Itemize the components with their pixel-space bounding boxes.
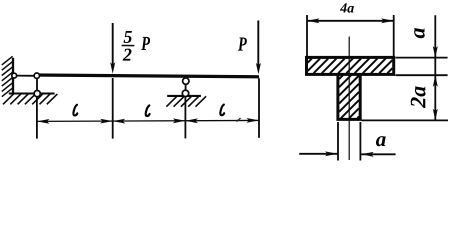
label a (web width) xyxy=(376,136,386,146)
extension line below beam right end xyxy=(258,78,260,138)
force arrow 5/2 P xyxy=(112,23,114,66)
dim arrow seg3 left xyxy=(185,118,198,123)
middle support ground line xyxy=(167,95,201,97)
a dim tail right xyxy=(361,153,395,155)
wall hatching (left fixed wall) xyxy=(2,56,13,96)
4a dim arrow right xyxy=(381,18,394,23)
extension line flange left top xyxy=(306,15,308,56)
extension line flange top right xyxy=(396,57,448,59)
label 4a xyxy=(340,3,354,12)
small scan tick near third l label xyxy=(237,118,241,122)
extension line web left bottom xyxy=(337,122,339,161)
dim arrow seg1 right xyxy=(100,119,113,124)
dim arrow at x=l0 left xyxy=(37,119,50,124)
extension line below mid-span load xyxy=(112,78,114,139)
extension line web bottom right xyxy=(362,119,449,121)
section vertical centerline xyxy=(348,37,350,161)
extension line flange right top xyxy=(393,15,395,56)
T-section web hatching xyxy=(339,75,359,118)
extension line web right bottom xyxy=(359,122,361,161)
fraction bar xyxy=(122,45,135,47)
label 2a (web height, rotated) xyxy=(411,86,426,108)
arrow 2a-dim bottom pointing down xyxy=(433,109,438,121)
label l (span 1) xyxy=(73,105,77,116)
label 5 (numerator) xyxy=(124,31,132,43)
T-section flange outline xyxy=(307,57,394,74)
label P at beam right end xyxy=(238,38,247,51)
a dim tail left xyxy=(299,153,337,155)
vertical dimension line right xyxy=(434,15,436,120)
left ground hatching xyxy=(3,94,57,104)
label a (flange thickness, rotated) xyxy=(414,28,425,38)
wall edge line xyxy=(12,58,14,94)
extension line below left support xyxy=(36,97,38,138)
pin circle at beam left end xyxy=(34,73,39,78)
label l (span 3) xyxy=(220,105,224,116)
a dim arrow pointing right xyxy=(325,151,338,156)
middle support lower pin circle xyxy=(182,90,188,96)
pin circle on wall xyxy=(12,73,17,78)
T-section web outline xyxy=(338,74,360,119)
force arrow P at right end xyxy=(257,21,259,67)
arrow 2a-dim top pointing up xyxy=(433,75,438,87)
vertical link beam-to-ground xyxy=(36,76,38,94)
label 2 (denominator) xyxy=(123,49,132,61)
label P at mid-span load xyxy=(141,37,150,50)
a dim arrow pointing left xyxy=(361,152,374,157)
arrow a-dim pointing down xyxy=(433,46,438,58)
middle support upper pin circle xyxy=(183,78,189,84)
extension line flange bottom right xyxy=(396,74,448,76)
middle support ground hatching xyxy=(166,96,206,106)
T-section flange hatching xyxy=(308,59,393,74)
4a dim arrow left xyxy=(307,18,320,23)
span dimension line (three l segments) xyxy=(37,120,259,121)
pin circle at left ground xyxy=(34,91,40,97)
label l (span 2) xyxy=(146,105,150,116)
horizontal link wall-to-beam xyxy=(14,75,37,77)
dim arrow seg2 left xyxy=(113,119,126,124)
4a dimension line xyxy=(307,20,394,22)
dim arrow seg2 right xyxy=(173,118,186,123)
left ground line xyxy=(9,92,55,94)
beam line xyxy=(34,75,259,77)
extension line below middle support xyxy=(184,97,186,138)
dim arrow seg3 right xyxy=(247,118,260,123)
middle support link xyxy=(185,81,187,94)
